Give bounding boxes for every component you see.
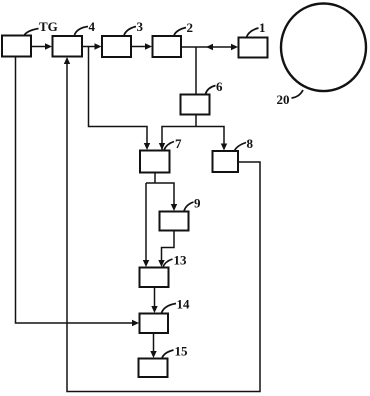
svg-text:7: 7 xyxy=(175,136,182,151)
svg-text:2: 2 xyxy=(187,20,194,35)
svg-text:TG: TG xyxy=(39,19,58,34)
svg-text:6: 6 xyxy=(216,79,223,94)
svg-text:13: 13 xyxy=(174,253,188,268)
svg-text:4: 4 xyxy=(89,19,96,34)
svg-text:9: 9 xyxy=(194,196,201,211)
svg-text:15: 15 xyxy=(175,344,189,359)
svg-text:20: 20 xyxy=(277,92,290,107)
svg-text:1: 1 xyxy=(259,20,266,35)
svg-text:3: 3 xyxy=(137,19,144,34)
svg-text:14: 14 xyxy=(177,297,191,312)
svg-text:8: 8 xyxy=(247,136,254,151)
